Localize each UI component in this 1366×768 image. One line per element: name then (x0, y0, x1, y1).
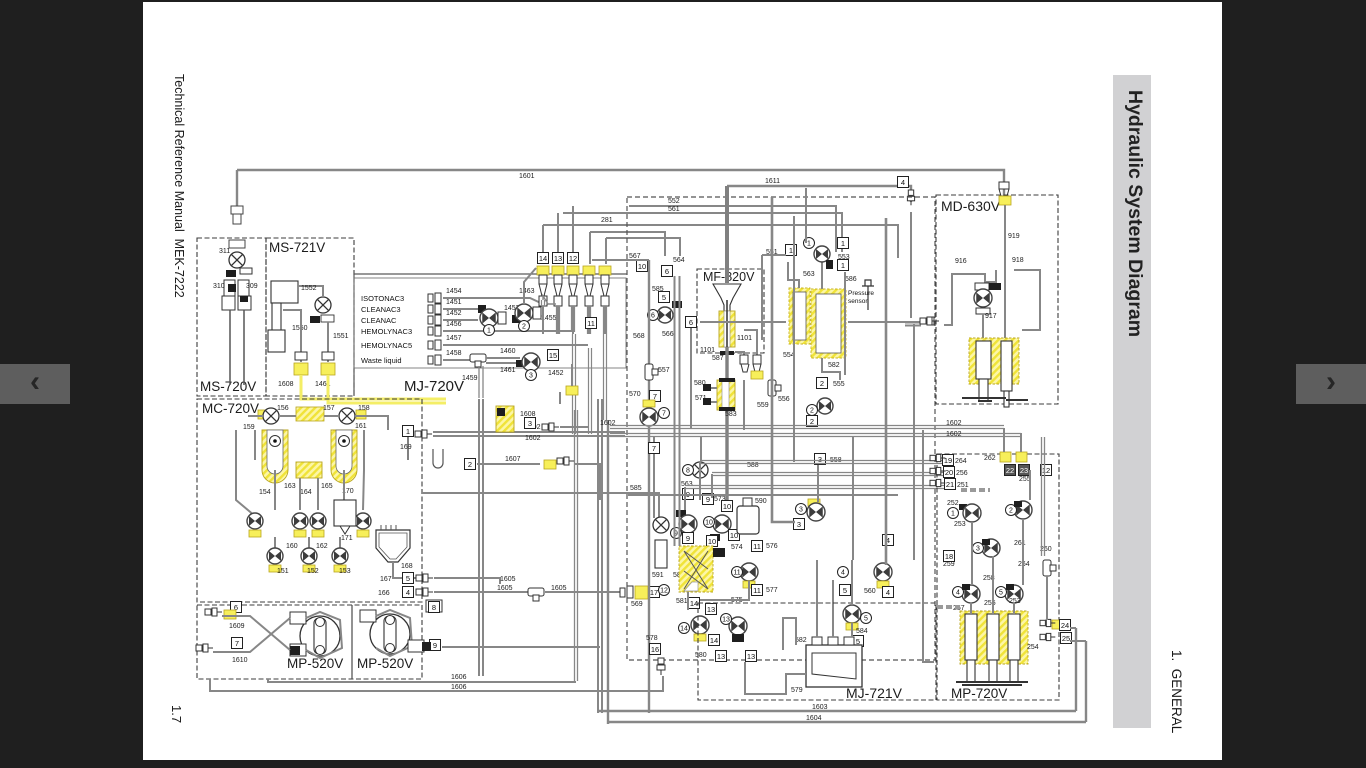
black fitting 1451 (478, 305, 486, 313)
svg-text:10: 10 (638, 262, 646, 271)
svg-text:11: 11 (753, 542, 761, 551)
sample probe assembly (311/310/309) (229, 206, 245, 248)
svg-text:252: 252 (947, 500, 959, 507)
riser x886 (885, 218, 888, 565)
svg-text:MF-820V: MF-820V (703, 270, 755, 284)
svg-text:18: 18 (945, 552, 953, 561)
wire down to connector 13 (557, 213, 559, 264)
connector into yellow block 17 (620, 586, 633, 598)
svg-text:7: 7 (662, 411, 666, 418)
left transducer bath (WBC) (262, 430, 288, 483)
valves 14/13 bottom (691, 616, 709, 634)
svg-text:HEMOLYNAC3: HEMOLYNAC3 (361, 327, 412, 336)
svg-text:560: 560 (864, 588, 876, 595)
reaction tank 563 (789, 288, 810, 344)
wire down to yellow conn right (327, 322, 329, 362)
unit boxes MP-520V (197, 605, 422, 679)
stub below 1462 (559, 392, 561, 404)
svg-text:583: 583 (725, 411, 737, 418)
svg-text:15: 15 (549, 351, 557, 360)
tee 1605 (528, 588, 544, 601)
terminal box 13 (553, 253, 564, 264)
terminal box 24 (1060, 620, 1071, 631)
svg-text:1551: 1551 (333, 333, 349, 340)
svg-text:5: 5 (662, 293, 666, 302)
hatched chamber 589 (679, 546, 713, 592)
svg-text:6: 6 (665, 267, 669, 276)
svg-text:1550: 1550 (292, 325, 308, 332)
svg-text:4: 4 (956, 590, 960, 597)
MD valve assembly (975, 283, 989, 290)
terminal box 1a (838, 238, 849, 249)
vertical riser from valve 2 to conn row (524, 268, 536, 304)
svg-text:574: 574 (731, 544, 743, 551)
circled 7 mid (659, 408, 670, 419)
svg-text:19: 19 (944, 456, 952, 465)
chamber 590 (737, 506, 759, 534)
black band 583 bottom (719, 407, 735, 411)
wire down from connector x=558 (557, 306, 559, 334)
svg-text:8: 8 (686, 468, 690, 475)
svg-text:569: 569 (631, 601, 643, 608)
connector below box4 (907, 190, 914, 205)
svg-text:1605: 1605 (497, 585, 513, 592)
right nav button (1296, 364, 1366, 404)
svg-text:310: 310 (213, 283, 225, 290)
riser group x661 (653, 517, 669, 533)
probe dark seg (228, 284, 236, 292)
pump 10 (713, 515, 731, 533)
circled 1 (484, 325, 495, 336)
probe dark seg2 (240, 296, 248, 302)
circled 14 (679, 623, 690, 634)
svg-text:7: 7 (235, 639, 239, 648)
valve 2 group (512, 315, 520, 323)
riser x772 to valve3 (772, 197, 795, 522)
MP-720V syringe base (956, 682, 1028, 685)
black band 583 top (719, 378, 735, 382)
svg-text:1552: 1552 (301, 285, 317, 292)
riser pair x590 (589, 348, 592, 434)
svg-text:Waste liquid: Waste liquid (361, 356, 402, 365)
svg-text:9: 9 (433, 641, 437, 650)
left margin vertical text (172, 74, 186, 298)
yellow connector column x=573 (567, 266, 579, 275)
terminal box 13b (716, 651, 727, 662)
wire 585 mid (422, 493, 659, 517)
probe needle right (243, 310, 245, 385)
svg-text:1101: 1101 (700, 347, 715, 354)
svg-text:8: 8 (432, 603, 436, 612)
svg-text:152: 152 (307, 568, 319, 575)
terminal box 6a (662, 266, 673, 277)
svg-text:1101: 1101 (737, 335, 752, 342)
wire down to connector col5 (605, 238, 607, 264)
svg-text:12: 12 (1042, 466, 1050, 475)
svg-text:553: 553 (838, 254, 850, 261)
wire 1606 upper riser pair (575, 500, 578, 681)
svg-text:13: 13 (722, 617, 730, 624)
svg-text:3: 3 (528, 419, 532, 428)
riser x701 (700, 437, 702, 462)
svg-text:254: 254 (1027, 644, 1039, 651)
reagent inlet connector 1451 (428, 304, 441, 314)
riser right x1076 (1075, 628, 1077, 711)
sidebar title (1123, 90, 1146, 337)
terminal box 16 (650, 644, 661, 655)
terminal box 4 MC (403, 587, 414, 598)
svg-text:1608: 1608 (278, 381, 294, 388)
wire pair from 1602 down to 260 tee (1042, 437, 1045, 556)
svg-text:157: 157 (323, 405, 335, 412)
yellow band below MF output (751, 371, 763, 379)
pump 566 (657, 307, 673, 323)
terminal box 9c (683, 533, 694, 544)
hatched column 583 (717, 380, 735, 410)
svg-text:4: 4 (841, 570, 845, 577)
svg-text:1601: 1601 (519, 173, 535, 180)
svg-text:1609: 1609 (229, 623, 245, 630)
svg-text:160: 160 (286, 543, 298, 550)
circled 4b (838, 567, 849, 578)
circled 2a (807, 405, 818, 416)
svg-text:163: 163 (284, 483, 296, 490)
svg-text:1606: 1606 (451, 674, 467, 681)
svg-text:9: 9 (706, 495, 710, 504)
svg-text:CLEANAC: CLEANAC (361, 316, 397, 325)
reagent inlet connector 1452 (428, 315, 441, 325)
terminal box 23 (1019, 465, 1030, 476)
tee 557 (645, 364, 658, 380)
wire down to yellow conn left (283, 310, 301, 362)
svg-text:167: 167 (380, 576, 392, 583)
wire 1606 upper (268, 679, 576, 682)
svg-text:156: 156 (277, 405, 289, 412)
reagent wire 1451 (443, 308, 470, 310)
valve x 8 (692, 462, 708, 478)
svg-text:MD-630V: MD-630V (941, 198, 1001, 214)
left nav button (0, 364, 70, 404)
yellow connector column x=558 (552, 266, 564, 275)
svg-text:587: 587 (712, 355, 724, 362)
MD tubing 916/918 (944, 274, 985, 325)
MF-820V hatched column (719, 311, 735, 347)
reagent inlet connector 1454 (428, 293, 441, 303)
terminal box 2a (817, 378, 828, 389)
svg-text:7: 7 (652, 444, 656, 453)
svg-text:3: 3 (797, 520, 801, 529)
wire 1607 onward (574, 464, 600, 500)
svg-text:5: 5 (999, 590, 1003, 597)
yellow connector column x=543 (537, 266, 549, 275)
svg-text:24: 24 (1061, 621, 1069, 630)
svg-text:1610: 1610 (232, 657, 248, 664)
rinse block 1552 (271, 281, 298, 303)
pump port blocks (290, 600, 442, 656)
svg-text:309: 309 (246, 283, 258, 290)
svg-text:3: 3 (818, 455, 822, 464)
svg-text:1461: 1461 (500, 367, 516, 374)
unit box MS-720V (197, 238, 266, 396)
connector at 5 (416, 574, 433, 582)
riser right x1086 (1085, 641, 1087, 722)
rinse column (272, 303, 281, 345)
circled 8 (683, 465, 694, 476)
terminal box 14 (538, 253, 549, 264)
MF outputs with connectors (735, 352, 744, 360)
tank top tubing (788, 262, 799, 288)
svg-text:1: 1 (789, 246, 793, 255)
riser x649 with tees (648, 260, 650, 404)
svg-text:ISOTONAC3: ISOTONAC3 (361, 294, 404, 303)
svg-text:MS-721V: MS-721V (269, 240, 325, 255)
svg-text:552: 552 (668, 198, 680, 205)
terminal box 14b (709, 635, 720, 646)
wires from connector row descending into MJ area (542, 300, 545, 306)
svg-text:2: 2 (820, 379, 824, 388)
terminal box 1b (838, 260, 849, 271)
svg-text:1606: 1606 (451, 684, 467, 691)
circled 13 (721, 614, 732, 625)
svg-text:591: 591 (652, 572, 664, 579)
wire 564 upper (590, 232, 665, 256)
588 wire bundle to MP-720V (700, 461, 944, 464)
black disc 587 (720, 351, 734, 355)
MD left connector (920, 317, 937, 325)
svg-text:1: 1 (951, 511, 955, 518)
unit box MJ-721V (698, 603, 936, 700)
svg-text:581: 581 (676, 598, 688, 605)
right bath aperture dot (339, 436, 350, 447)
svg-text:264: 264 (955, 458, 967, 465)
schematic svg (143, 2, 1222, 765)
wire 1605 to 17 (545, 591, 620, 593)
svg-text:MP-520V: MP-520V (287, 656, 343, 671)
waste wire 1460 (486, 357, 520, 359)
svg-text:20: 20 (945, 468, 953, 477)
MP-720V top yellow connectors (1000, 452, 1011, 462)
svg-text:1463: 1463 (519, 288, 535, 295)
svg-text:MP-720V: MP-720V (951, 686, 1007, 701)
terminal box 6b (686, 317, 697, 328)
mix valve 1 (480, 309, 498, 327)
syringe top tubes (970, 602, 972, 614)
svg-text:161: 161 (355, 423, 367, 430)
svg-text:566: 566 (662, 331, 674, 338)
wire 570 down to bottom (648, 426, 650, 713)
wire down to connector 14 (542, 225, 544, 264)
wire from 1601 down to sample probe (236, 170, 238, 206)
riser x923 with foot (923, 430, 934, 662)
svg-text:567: 567 (629, 253, 641, 260)
left bath aperture dot (270, 436, 281, 447)
reagent wire 1456 (443, 330, 470, 332)
left edge connectors MP-720V (930, 454, 945, 461)
svg-text:25: 25 (1062, 634, 1070, 643)
black band 553 (826, 260, 833, 269)
unit box MD-630V (936, 195, 1058, 404)
svg-text:2: 2 (810, 417, 814, 426)
svg-text:916: 916 (955, 258, 967, 265)
page number 1.7 (169, 705, 184, 723)
right connectors 24/25 (1052, 620, 1064, 629)
reagent wire 1452 (443, 319, 470, 321)
reagent inlet connector 1457 (428, 340, 441, 350)
circled 11 (732, 567, 743, 578)
svg-text:sensor: sensor (848, 298, 868, 305)
wire from MF to lower (743, 380, 745, 430)
riser x845 from box1 to 555 (844, 272, 846, 375)
svg-text:561: 561 (668, 206, 680, 213)
connector at 3 (542, 423, 559, 431)
svg-text:7: 7 (653, 392, 657, 401)
long vertical riser x600 (598, 399, 602, 713)
right margin section text (1169, 650, 1184, 733)
svg-text:10: 10 (708, 537, 716, 546)
svg-text:13: 13 (554, 254, 562, 263)
terminal box 1c (786, 245, 797, 256)
flow cell outlet to 579 (745, 662, 806, 694)
probe black band 310 (226, 270, 236, 277)
svg-text:22: 22 (1006, 466, 1014, 475)
tubes around pump heads (306, 612, 342, 658)
reagent panel box (354, 278, 626, 368)
gray dashed tube stub left of syringes (937, 605, 960, 609)
svg-text:14: 14 (710, 636, 718, 645)
wire 1459 down pair (479, 366, 483, 398)
reagent manifold wires to valves (470, 298, 545, 305)
svg-text:158: 158 (358, 405, 370, 412)
circled 9 (671, 528, 682, 539)
svg-text:3: 3 (529, 373, 533, 380)
svg-text:169: 169 (400, 444, 412, 451)
yellow connector 1461 (321, 363, 335, 375)
svg-text:9: 9 (686, 534, 690, 543)
svg-text:13: 13 (707, 605, 715, 614)
MC valve 158 (339, 408, 355, 424)
terminal box 12 (568, 253, 579, 264)
svg-text:MJ-720V: MJ-720V (404, 378, 464, 395)
terminal box 14a (689, 598, 700, 609)
svg-text:14: 14 (539, 254, 547, 263)
long vertical pair from 15 down (575, 410, 578, 500)
svg-text:1: 1 (841, 261, 845, 270)
svg-text:1458: 1458 (446, 350, 462, 357)
tee 556 (768, 380, 781, 396)
riser x914 (913, 324, 915, 560)
svg-text:10: 10 (723, 502, 731, 511)
svg-text:311: 311 (219, 248, 230, 255)
terminal box 11a (752, 541, 763, 552)
terminal box 3 (525, 418, 536, 429)
right edge links from 24/25 (1070, 627, 1076, 629)
yellow tube run 1608/1461 to MJ-720V (301, 375, 446, 403)
svg-text:579: 579 (791, 687, 803, 694)
wire 561 (563, 213, 842, 252)
valves 4/5 MP-720V (962, 585, 980, 603)
terminal box 22 (1005, 465, 1016, 476)
svg-text:577: 577 (766, 587, 778, 594)
terminal box 4c (883, 587, 894, 598)
wire 15 down (571, 364, 573, 386)
flow cell detector (806, 645, 862, 687)
wire from 9 right (442, 646, 600, 648)
circled 3b (796, 504, 807, 515)
wire 558 riser (817, 465, 819, 502)
reagent inlet connector 1456 (428, 326, 441, 336)
pump rotor left (300, 616, 340, 656)
unit box MF-820V (697, 269, 764, 353)
terminal box 10b (722, 501, 733, 512)
svg-text:12: 12 (660, 588, 668, 595)
wire 575 (687, 592, 689, 610)
svg-text:151: 151 (277, 568, 289, 575)
wire 552 (629, 206, 836, 252)
svg-text:6: 6 (651, 313, 655, 320)
wire 1605 upper (434, 578, 500, 584)
stub below 1 (407, 437, 409, 460)
svg-text:6: 6 (689, 318, 693, 327)
page background (143, 2, 1222, 760)
terminal box 7b (649, 443, 660, 454)
wire pair 1602a long (610, 426, 1004, 429)
pump black port (290, 646, 300, 655)
wire 1552 (298, 286, 323, 296)
tank bottom outlet (822, 358, 840, 380)
svg-text:1456: 1456 (446, 321, 462, 328)
svg-text:13: 13 (747, 652, 755, 661)
MD syringe barrels (976, 341, 1012, 407)
svg-text:1602: 1602 (946, 420, 962, 427)
reagent wire 1458 (443, 359, 470, 361)
yellow connector column x=605 (599, 266, 611, 275)
MD yellow inlet connector (999, 182, 1009, 196)
reaction tank 554/582 (811, 289, 846, 358)
wire down from connector x=573 (572, 306, 574, 334)
MP-720V syringe block hatched (960, 611, 1028, 664)
riser x853 (852, 437, 854, 560)
circled 6 (648, 310, 659, 321)
terminal box 4b (883, 535, 894, 546)
MC top manifold row (258, 410, 268, 419)
terminal box 5c (853, 636, 864, 647)
wire to 156 (248, 415, 263, 417)
svg-text:11: 11 (587, 319, 595, 328)
yellow band below 15 (566, 386, 578, 395)
svg-text:171: 171 (341, 535, 353, 542)
terminal box 18 (944, 551, 955, 562)
terminal box 5b (840, 585, 851, 596)
svg-text:584: 584 (856, 628, 868, 635)
svg-text:12: 12 (569, 254, 577, 263)
wire 1611 (727, 185, 897, 187)
pump rotor right (370, 614, 410, 654)
MC valve 156 (263, 408, 279, 424)
waste line 1458 tee (470, 354, 486, 367)
unit box MS-721V (266, 238, 354, 396)
terminal boxes 8 and 9 on MC right edge (429, 602, 440, 613)
svg-text:281: 281 (601, 217, 613, 224)
MD syringe block hatched (969, 338, 1019, 384)
svg-text:590: 590 (755, 498, 767, 505)
connector at 4 (416, 588, 433, 596)
svg-text:4: 4 (406, 588, 410, 597)
circled 2 (519, 321, 530, 332)
MF-820V funnel (713, 284, 741, 311)
circled 12 (659, 585, 670, 596)
terminal box 5 top (659, 292, 670, 303)
svg-text:1: 1 (406, 427, 410, 436)
